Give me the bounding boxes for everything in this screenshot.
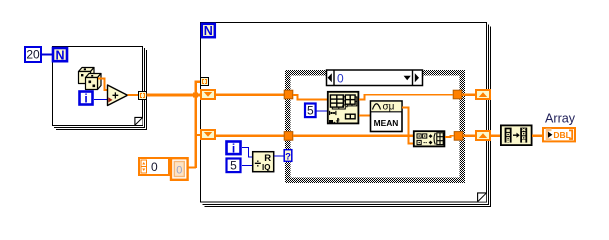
wire i to quotient (242, 148, 253, 158)
svg-text:5: 5 (307, 104, 314, 118)
case tunnel left 1 (284, 90, 293, 99)
svg-text:5: 5 (230, 159, 237, 173)
constant 20 (25, 47, 41, 62)
wire tunnel1 into subset icon (293, 95, 327, 100)
count terminal N (small loop) (53, 48, 67, 62)
wire build array to right tunnel 2 (445, 136, 454, 137)
case tunnel right 2 (454, 132, 463, 141)
wire junction left of big loop (193, 93, 198, 98)
svg-text:0: 0 (151, 160, 158, 174)
right shift register 2 (476, 131, 490, 140)
big for loop fold corner (478, 193, 487, 202)
wire SR1 to case tunnel (216, 94, 285, 96)
wire branch to auto-index tunnel (195, 81, 202, 83)
count terminal N (big loop) (202, 24, 215, 38)
wire tunnel right 2 to SR (463, 135, 476, 137)
case selector terminal (284, 150, 292, 163)
case tunnel right 1 (453, 90, 462, 99)
numeric control 0 (outside loop) (139, 158, 169, 175)
svg-text:N: N (55, 48, 64, 62)
wire from control 0 (189, 166, 197, 168)
iteration terminal i (small loop) (80, 92, 93, 106)
svg-text:i: i (84, 92, 87, 106)
wire 5 to subset icon (316, 110, 328, 112)
constant 5 (quotient input) (227, 159, 241, 173)
array DBL indicator terminal (543, 128, 575, 141)
coercion dot (108, 97, 112, 102)
svg-text:20: 20 (26, 48, 40, 62)
svg-text:N: N (204, 24, 213, 38)
add function (108, 85, 128, 106)
wire dice to add (98, 79, 108, 91)
left shift register 1 (201, 90, 215, 99)
case structure border (285, 70, 465, 183)
wire subset to right tunnel (upper) (359, 95, 453, 100)
wire into left shift register 2 (196, 134, 201, 136)
iteration terminal i (big loop) (227, 141, 241, 155)
wire 5 to quotient (242, 165, 253, 167)
svg-text:?: ? (285, 152, 291, 163)
wire i to add (94, 99, 108, 101)
vertical branch wire (195, 81, 197, 169)
svg-text:MEAN: MEAN (374, 118, 399, 128)
auto-index tunnel (small loop output) (139, 92, 147, 100)
wire tunnel2 to build array (293, 135, 413, 137)
svg-text:DBL: DBL (553, 130, 570, 140)
left shift register 2 (201, 130, 215, 139)
svg-text:+: + (112, 90, 119, 102)
wire mean to build array (402, 108, 413, 144)
svg-text:σμ: σμ (383, 102, 395, 113)
wire SR2 to case tunnel (216, 135, 285, 137)
svg-text:Array: Array (545, 111, 576, 125)
big for loop frame (201, 23, 491, 207)
svg-text:0: 0 (176, 165, 182, 177)
wire SR2R to reverse (490, 135, 501, 137)
svg-text:÷: ÷ (255, 157, 262, 171)
reverse 1d array (501, 125, 532, 145)
small for loop fold corner (135, 117, 143, 125)
array wire to big loop (147, 94, 195, 97)
svg-text:IQ: IQ (262, 163, 270, 172)
wire add to tunnel (128, 94, 139, 96)
wire into left shift register 1 (196, 94, 201, 97)
constant 5 (subset size) (305, 104, 316, 118)
svg-text:0: 0 (337, 71, 344, 85)
right shift register 1 (476, 90, 490, 99)
case tunnel left 2 (284, 132, 293, 141)
wire tunnel right 1 to SR (462, 94, 476, 96)
wire subset to mean (359, 115, 371, 117)
small for loop frame (53, 47, 147, 130)
array subset icon (328, 92, 359, 124)
quotient and remainder function (253, 152, 274, 172)
random number dice icon (79, 68, 102, 90)
auto-index tunnel (big loop input) (201, 78, 209, 86)
wire reverse to indicator (532, 135, 543, 137)
svg-text:i: i (232, 141, 235, 155)
build array (414, 131, 445, 146)
case selector label (327, 70, 423, 86)
wire quotient to case selector (274, 155, 284, 157)
icon terminal 0 (outside loop) (171, 158, 188, 180)
mean vi (371, 101, 403, 132)
wire 20 to N (41, 54, 52, 56)
